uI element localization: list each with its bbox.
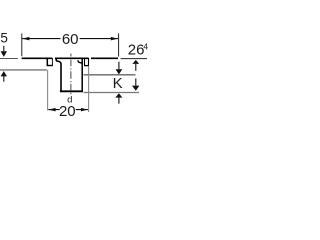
arrow 5 upper (down) (3, 46, 5, 52)
arrowhead 60 left (22, 37, 29, 41)
extension line right for 60 (118, 33, 120, 56)
arrow 26 lower (down) (135, 78, 137, 85)
right hook (78, 60, 82, 63)
arrow K upper (down, outside) (118, 62, 120, 70)
svg-text:60: 60 (62, 31, 79, 48)
arrow 5 lower (up) (1, 71, 7, 76)
leader line at top surface level for 26 (121, 58, 147, 60)
arrowhead 60 right (111, 37, 118, 41)
wire: rail top surface line middle segment (55, 57, 89, 59)
extension line left for 60 (21, 33, 23, 56)
svg-text:d: d (67, 95, 72, 106)
extension line bottom for 26 (84, 92, 140, 94)
extension line right for 20 (88, 66, 90, 112)
right tab of profile (84, 58, 86, 65)
left hook and channel wall (56, 58, 61, 90)
extension line top for 5 (0, 58, 18, 60)
svg-text:K: K (113, 75, 123, 92)
svg-text:26: 26 (128, 41, 145, 58)
dimension line 60 (22, 38, 118, 40)
extension line left for 20 (47, 70, 49, 111)
svg-text:4: 4 (143, 42, 148, 52)
wire: rail top surface line right segment (91, 57, 118, 59)
left tab of profile (46, 58, 48, 65)
arrow K lower (up, outside) (115, 93, 122, 97)
arrow 26 upper (up) (132, 60, 139, 64)
right channel wall (81, 58, 83, 90)
arrowhead 20 left (48, 108, 55, 112)
centerline dash-dot (70, 54, 72, 95)
dimension line 20 (48, 109, 88, 111)
extension line bottom for 5 (gray L) (0, 69, 47, 71)
K line (84, 74, 136, 76)
arrowhead 20 right (81, 108, 88, 112)
svg-text:5: 5 (0, 31, 8, 46)
channel bottom (60, 90, 83, 92)
wire: rail top surface line left segment (22, 57, 53, 59)
